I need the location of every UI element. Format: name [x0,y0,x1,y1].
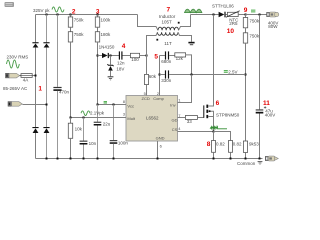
wire bottom bus [36,158,263,160]
svg-text:22u: 22u [103,122,111,127]
thermistor NTC 2R5 [226,11,246,17]
phase dot aux [156,39,158,41]
wire R1-R2 [70,27,72,32]
capacitor C6 100n [110,105,118,159]
phase dot primary [178,22,180,24]
capacitor C1 470n [53,15,61,159]
connector J1 line input [6,73,20,78]
capacitor C5 22u [94,105,102,159]
node drain-output [213,14,215,16]
wire INV line [169,74,245,76]
wire output to connector [246,14,267,16]
waveform CS ramp [210,127,227,129]
svg-text:33: 33 [187,119,193,124]
node INV-comp [191,74,193,76]
resistor R4 180k [95,32,99,42]
svg-text:GND: GND [156,135,165,140]
svg-text:325V pk: 325V pk [33,8,50,13]
node bus-colD [70,14,72,16]
svg-text:9: 9 [244,7,248,14]
svg-text:8: 8 [207,141,211,148]
svg-text:6: 6 [216,100,220,107]
node Vcc-100n [113,104,115,106]
wire top bus [36,14,138,16]
svg-text:0.82: 0.82 [233,141,242,146]
node ZCD-aux junction [146,55,148,57]
node Mult-colD [70,117,72,119]
capacitor C2 12n [119,51,131,59]
waveform sine 325V [52,7,64,12]
wire Mult line [71,117,127,119]
node INV-divider [245,74,247,76]
diode D7 STTH1L06 [219,12,228,18]
wire AC2 to colB [22,104,46,106]
node bus-R14 [245,158,247,160]
diode D4 bridge lower [43,127,49,133]
node bus-colB [46,14,48,16]
resistor R12 0.82 [212,132,216,159]
resistor R8 10k [68,118,72,159]
fuse F1 4A [20,74,36,78]
diode D1 bridge upper [32,42,38,47]
resistor R2 750k [68,32,72,42]
wire GND pin [157,141,159,159]
connector J3 400V output [267,12,279,17]
IC U1 L6562 [126,96,178,142]
svg-text:10n: 10n [89,141,97,146]
svg-text:60k: 60k [149,74,157,79]
resistor R5 100 [130,53,139,57]
wire R5 to ZCD node [140,55,147,57]
svg-text:680n: 680n [161,59,172,64]
svg-text:Inductor: Inductor [159,14,176,19]
wire Vcc line [98,104,127,106]
svg-text:1: 1 [38,86,42,93]
connector J4 common [265,156,278,161]
node AC1-colA [35,75,37,77]
svg-text:Common: Common [237,161,256,166]
resistor R1 750k [68,15,72,28]
svg-text:100k: 100k [101,17,112,22]
wire gate [197,117,203,119]
svg-text:1N4150: 1N4150 [99,45,115,50]
diode D5 1N4150 [98,53,120,58]
capacitor C4 10n [80,118,88,159]
svg-text:470n: 470n [59,90,70,95]
node bus-GND [157,158,159,160]
node bus-colE [97,14,99,16]
node bus-colD [70,158,72,160]
wire drain top [191,14,219,16]
svg-text:750k: 750k [249,34,260,39]
svg-text:9k53: 9k53 [249,141,259,146]
svg-text:Comp: Comp [153,96,164,101]
node comp-330n [159,74,161,76]
node bus-10n [83,158,85,160]
transistor Q1 STP8NM50 [203,15,213,132]
resistor R3 100k [95,15,99,28]
resistor R14 9k53 [243,141,247,159]
svg-text:85-265V AC: 85-265V AC [3,86,28,91]
wire bridge leg B [46,15,48,159]
svg-text:7: 7 [167,7,171,14]
waveform Vcc small [104,102,107,103]
svg-text:Vcc: Vcc [127,103,134,108]
svg-text:100n: 100n [118,141,129,146]
svg-text:750k: 750k [249,18,260,23]
svg-text:CS: CS [172,127,178,132]
svg-text:Mult: Mult [127,116,135,121]
node Vcc-colE [97,104,99,106]
svg-text:GD: GD [172,117,178,122]
node charge-pump [110,55,112,57]
node bus-R12 [213,158,215,160]
wire R3-R4 [97,27,99,32]
svg-text:105T: 105T [162,20,173,25]
svg-text:80W: 80W [268,24,278,29]
wire colD down to MULT node [70,42,72,123]
node bus-R13 [230,158,232,160]
node bus-colC [57,14,59,16]
svg-text:3: 3 [96,8,100,15]
capacitor C7 680n [160,51,175,59]
svg-text:2: 2 [72,8,76,15]
diode D2 bridge upper [43,42,49,47]
wire CS to R13 [214,132,231,141]
ground zener [108,76,114,80]
svg-text:180k: 180k [101,32,112,37]
node bus-colB [46,158,48,160]
wire divider to INV node and R14 [245,43,247,141]
svg-text:2.5V: 2.5V [228,70,237,75]
waveform sine mains [7,60,20,68]
resistor R10 12k [175,53,192,75]
node ZCD line colE [97,55,99,57]
svg-text:11: 11 [263,100,270,107]
svg-text:12k: 12k [176,56,184,61]
node bus-cap [259,158,261,160]
svg-text:10k: 10k [75,127,83,132]
svg-text:18V: 18V [116,66,124,71]
svg-text:4A: 4A [23,77,29,82]
svg-text:4: 4 [122,43,126,50]
node output-cap [259,14,261,16]
wire R6-R7 [245,28,247,33]
svg-text:750k: 750k [74,32,85,37]
waveform approx 2.5V [224,71,228,73]
resistor R13 0.82 [229,141,233,159]
svg-text:STTH1L06: STTH1L06 [212,4,234,9]
svg-text:ZCD: ZCD [142,96,150,101]
inductor T1 primary [158,15,191,31]
svg-text:0.82: 0.82 [216,141,225,146]
svg-text:400V: 400V [265,112,276,117]
node output-divider [245,14,247,16]
resistor R9 60k [144,56,148,96]
capacitor C8 330n [160,70,170,78]
svg-text:330n: 330n [161,78,172,83]
svg-text:750k: 750k [74,17,85,22]
svg-text:L6562: L6562 [146,115,159,120]
wire Comp vertical [159,56,161,96]
svg-text:Inv: Inv [170,102,175,107]
waveform sine mult [81,111,90,116]
node bus-colC [57,158,59,160]
connector J2 neutral input [8,102,22,107]
wire GD pin [178,117,186,119]
waveform approx output [251,10,255,12]
zener D6 18V [107,56,113,77]
svg-text:2R5: 2R5 [229,21,238,26]
logo top-left [5,2,15,7]
svg-text:5: 5 [154,53,158,60]
resistor R11 33 [185,116,197,120]
node CS-source [213,131,215,133]
svg-text:12n: 12n [117,60,125,65]
node bus-100n [113,158,115,160]
node AC2-colB [46,104,48,106]
wire CS pin [178,131,214,133]
wire bus jog to inductor [138,15,159,31]
node bus-22u [97,158,99,160]
svg-text:100: 100 [131,57,139,62]
svg-text:10: 10 [227,28,235,35]
capacitor C9 47u 400V [256,15,267,159]
svg-text:2.1Vpk: 2.1Vpk [90,111,105,116]
waveform inductor current [185,9,202,13]
resistor R7 750k [243,33,247,43]
svg-text:230V RMS: 230V RMS [7,55,29,60]
resistor R6 750k [243,15,247,28]
wire Inv pin [178,75,192,103]
diode D3 bridge lower [32,127,38,133]
wire bridge leg A [35,15,37,159]
ground aux winding [188,42,194,45]
wire colE down to Vcc node [97,42,99,105]
ground common [258,161,263,164]
node Mult-10n [83,117,85,119]
svg-text:11T: 11T [164,41,172,46]
inductor T1 aux winding [147,32,192,55]
svg-text:STP8NM50: STP8NM50 [216,112,240,117]
